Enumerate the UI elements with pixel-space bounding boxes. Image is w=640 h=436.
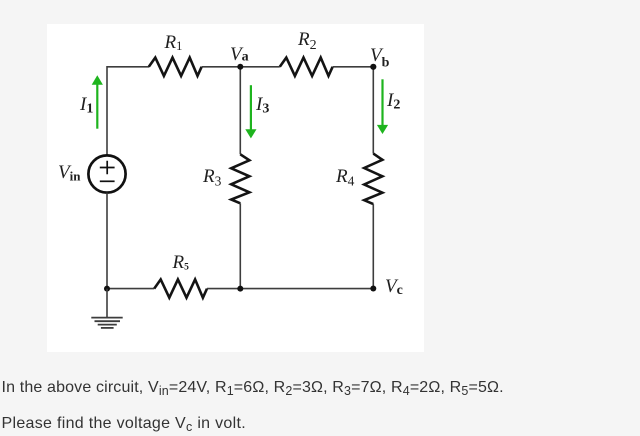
wire: right vertical from node Vb to R4 <box>372 67 374 154</box>
label R4 <box>336 167 354 188</box>
node Vb junction dot <box>370 64 376 70</box>
label Vc <box>385 277 403 298</box>
label Vb <box>370 46 389 71</box>
wire: left vertical from top rail to Vin source <box>106 66 108 156</box>
wire: bottom rail right segment <box>207 288 373 290</box>
label Vin <box>58 163 80 183</box>
label R1 <box>165 33 183 53</box>
label I1 <box>80 95 93 117</box>
wire: top rail between R2 and Vb <box>333 66 374 68</box>
label R3 <box>203 167 221 188</box>
node: bottom-left junction dot <box>104 286 110 292</box>
wire: middle vertical from node Va to R3 <box>239 67 241 155</box>
current arrow I1 <box>92 75 103 129</box>
white circuit panel <box>47 24 424 352</box>
minus sign of source <box>100 180 115 182</box>
current arrow I3 <box>245 85 256 138</box>
current arrow I2 <box>377 79 388 134</box>
ground <box>91 289 122 328</box>
wire: right vertical from R4 to node Vc <box>372 204 374 288</box>
node Vc junction dot <box>370 286 376 292</box>
voltage source Vin <box>88 155 125 192</box>
resistor R5 <box>154 279 207 297</box>
wire: bottom rail left segment <box>107 288 154 290</box>
resistor R1 <box>149 58 202 76</box>
plus sign of source <box>100 161 115 175</box>
node: bottom-middle junction dot <box>237 286 243 292</box>
label Va <box>230 45 249 65</box>
resistor R2 <box>280 58 333 76</box>
caption line 1 <box>2 380 504 396</box>
label I2 <box>387 91 400 113</box>
label R5 <box>173 253 189 273</box>
wire: top rail left segment (Vin top to R1) <box>107 66 149 68</box>
label I3 <box>256 95 269 117</box>
wire: middle vertical from R3 to bottom rail <box>239 203 241 288</box>
resistor R4 <box>364 154 382 205</box>
label R2 <box>298 30 317 53</box>
wire: top rail between R1 and R2 <box>202 66 280 68</box>
node Va junction dot <box>237 64 243 70</box>
wire: left vertical from Vin source to bottom rail <box>106 193 108 289</box>
caption line 2 <box>2 416 246 432</box>
resistor R3 <box>231 154 249 203</box>
